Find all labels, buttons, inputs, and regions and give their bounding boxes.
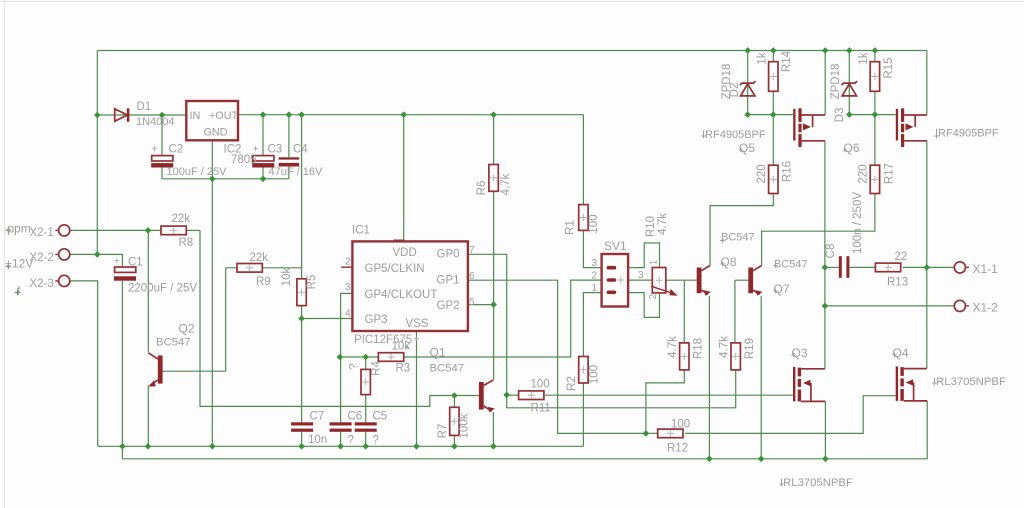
svg-text:GND: GND: [204, 127, 228, 139]
wire D2 node to Q5 gate: [748, 114, 794, 116]
wire SV1 pin1 to R2: [583, 293, 601, 357]
svg-text:R8: R8: [179, 237, 194, 249]
svg-text:Q5: Q5: [739, 141, 755, 155]
diode D1: [115, 108, 130, 121]
wire R11 left lead: [507, 394, 519, 396]
wire ppm net to Q1 base: [200, 230, 479, 406]
svg-text:SV1: SV1: [604, 239, 627, 253]
svg-text:C2: C2: [169, 144, 184, 156]
wire trimmer to Q8 base: [667, 279, 697, 281]
junction D2 cathode node: [744, 111, 751, 118]
svg-text:X2-3: X2-3: [30, 278, 54, 290]
svg-text:220: 220: [756, 164, 768, 183]
junction rail1 VSS: [413, 443, 420, 450]
svg-text:Q4: Q4: [893, 346, 909, 360]
svg-text:Q3: Q3: [792, 346, 808, 360]
wire 5V to R9/R5 column: [301, 115, 303, 279]
frame border left: [4, 0, 6, 508]
junction R13 right: [924, 264, 931, 271]
junction C4 top: [286, 111, 293, 118]
wire R6 to GP2 to Q1 collector: [493, 191, 495, 379]
wire R3 right to SV1 pin2: [404, 280, 602, 357]
wire Q3 source column: [824, 401, 826, 458]
wire X2-3 to ground rail: [70, 281, 98, 446]
svg-text:BC547: BC547: [774, 259, 808, 271]
junction X1-2 node: [822, 303, 829, 310]
capacitor C4: [279, 157, 300, 166]
junction R7 top: [451, 392, 458, 399]
resistor R8: [161, 226, 186, 235]
wire R7 leads: [453, 396, 455, 447]
junction X2-1 R8: [145, 227, 152, 234]
mosfet Q6: [896, 108, 927, 147]
svg-text:2: 2: [345, 257, 351, 268]
wire GP3 row: [302, 318, 353, 320]
wire SV1 pin1 to trimmer bottom: [628, 293, 660, 318]
net flag ppm cross: [6, 227, 12, 233]
svg-text:100: 100: [531, 379, 550, 391]
junction IC2 GND: [209, 176, 216, 183]
svg-text:R17: R17: [884, 163, 896, 184]
junction C2 top: [159, 112, 166, 119]
svg-text:Q7: Q7: [774, 282, 790, 296]
junction C3 top: [260, 111, 267, 118]
svg-text:Q1: Q1: [430, 346, 446, 360]
svg-text:IRL3705NPBF: IRL3705NPBF: [780, 477, 853, 489]
junction rail D3: [846, 47, 853, 54]
svg-text:C1: C1: [128, 257, 143, 269]
svg-text:C3: C3: [268, 144, 283, 156]
frame border top: [0, 1, 1024, 3]
svg-text:GP1: GP1: [437, 275, 460, 287]
capacitor C3: [252, 156, 274, 168]
capacitor C6: [330, 422, 352, 432]
svg-text:1k: 1k: [858, 52, 870, 64]
svg-text:100: 100: [671, 419, 690, 431]
wire C6 column: [340, 357, 342, 446]
wire C8 to R13: [849, 266, 875, 268]
wire R1 bottom to SV1 pin3: [583, 230, 601, 267]
wire C3 leads: [262, 115, 264, 179]
junction rail1 C7: [298, 443, 305, 450]
junction R12 left node: [643, 430, 650, 437]
wire GP1 to R12: [468, 280, 658, 433]
wire R15 R17 column: [874, 51, 876, 166]
resistor R5: [297, 279, 306, 306]
svg-text:GP2: GP2: [437, 300, 460, 312]
svg-text:6: 6: [469, 271, 475, 282]
junction R14 bottom: [770, 111, 777, 118]
junction rail2 Q7 emitter: [758, 456, 765, 463]
wire R12 to Q4 gate: [685, 396, 896, 434]
wire X1-2 row: [825, 305, 955, 307]
wire GP0 to R11 to R19 bottom: [468, 254, 736, 407]
svg-text:D1: D1: [137, 101, 152, 113]
svg-text:f: f: [17, 284, 21, 298]
svg-text:VDD: VDD: [393, 247, 417, 259]
svg-text:100: 100: [589, 365, 601, 384]
text origin crosses: [405, 134, 939, 486]
svg-text:10n: 10n: [308, 434, 327, 446]
svg-text:100: 100: [588, 214, 600, 233]
resistor R12: [658, 429, 683, 438]
svg-text:3: 3: [592, 258, 598, 269]
svg-text:+OUT: +OUT: [209, 110, 239, 122]
junction R6 top: [490, 111, 497, 118]
svg-text:Q2: Q2: [179, 322, 195, 336]
IC1 PIC12F675 box: [352, 241, 468, 331]
wire C8 left lead: [825, 266, 839, 268]
svg-text:IC1: IC1: [352, 225, 370, 237]
svg-text:?: ?: [348, 435, 354, 447]
resistor R7: [450, 407, 459, 435]
svg-text:GP0: GP0: [437, 249, 460, 261]
connector X2-2: [55, 249, 69, 260]
svg-text:2200uF / 25V: 2200uF / 25V: [128, 283, 197, 295]
junction GP2 node: [490, 301, 497, 308]
junction C3 bottom: [260, 176, 267, 183]
svg-text:R16: R16: [782, 161, 794, 182]
junction R5 bottom: [298, 315, 305, 322]
capacitor C1: [114, 267, 136, 281]
svg-text:2: 2: [592, 270, 598, 281]
wire D2 zener leads: [747, 51, 749, 115]
voltage regulator IC2: [186, 101, 238, 140]
wire R1 top column: [582, 115, 584, 205]
wire Q2 collector column: [147, 230, 149, 351]
resistor R4: [361, 369, 370, 394]
svg-text:4.7k: 4.7k: [667, 336, 679, 358]
junction R11 left: [503, 392, 510, 399]
svg-text:10k: 10k: [281, 267, 293, 286]
svg-text:+: +: [114, 257, 120, 268]
svg-text:22: 22: [895, 251, 908, 263]
junction VDD: [400, 111, 407, 118]
svg-text:C6: C6: [348, 411, 363, 423]
wire R8 right lead: [186, 229, 200, 231]
resistor R2: [579, 357, 588, 384]
wire rail1 to rail2 drop: [121, 446, 123, 459]
junction rail1 Q2 emitter: [145, 443, 152, 450]
svg-text:X2-2: X2-2: [30, 252, 54, 264]
svg-text:IRF4905BPF: IRF4905BPF: [935, 128, 999, 140]
wire Q2 emitter column: [147, 385, 149, 446]
wire IC2 OUT 5V row: [238, 114, 583, 116]
svg-text:ppm: ppm: [8, 222, 31, 236]
svg-text:R7: R7: [437, 424, 449, 439]
resistor R1: [579, 205, 588, 231]
resistor R15: [870, 62, 879, 92]
wire VDD column: [403, 115, 405, 242]
resistor R11: [519, 391, 544, 400]
zener diode D3: [842, 81, 858, 96]
svg-text:X2-1: X2-1: [30, 227, 54, 239]
wire R11 to Q3 gate: [545, 394, 793, 396]
junction GP4 C6 node: [337, 354, 344, 361]
mosfet Q5: [793, 108, 825, 147]
svg-text:GP3: GP3: [365, 314, 388, 326]
svg-text:100uF / 25V: 100uF / 25V: [167, 166, 228, 178]
resistor R19: [731, 343, 740, 370]
wire R18 bottom to R12 node: [646, 370, 684, 434]
junction rail1 C1: [119, 443, 126, 450]
junction R9 column top: [298, 111, 305, 118]
svg-text:R3: R3: [396, 363, 411, 375]
junction rail1 Q1 emitter: [490, 443, 497, 450]
svg-text:Q6: Q6: [844, 141, 860, 155]
wire R9 left to Q2 base column: [225, 268, 227, 371]
svg-text:R2: R2: [566, 376, 578, 391]
svg-text:?: ?: [373, 435, 379, 447]
wire R4 leads: [365, 357, 367, 422]
wire C1 bottom lead: [121, 281, 123, 447]
svg-text:1k: 1k: [757, 52, 769, 64]
svg-text:C4: C4: [293, 144, 308, 156]
zener diode D2: [740, 81, 756, 96]
svg-text:+: +: [152, 144, 158, 155]
resistor R16: [769, 165, 778, 193]
svg-text:47uF / 16V: 47uF / 16V: [269, 166, 323, 178]
connector X1-1: [954, 262, 969, 273]
resistor R17: [870, 165, 879, 193]
wire IC2 GND column: [211, 140, 213, 446]
wire Q7 emitter column: [760, 296, 762, 459]
junction rail1 C5: [362, 443, 369, 450]
wire ground rail 1: [98, 445, 584, 447]
svg-text:Q8: Q8: [721, 255, 737, 269]
svg-text:IN: IN: [190, 110, 201, 122]
junction D1 anode: [94, 112, 101, 119]
svg-text:3: 3: [638, 270, 644, 281]
transistor Q8: [697, 266, 711, 297]
svg-text:R5: R5: [306, 275, 318, 290]
wire +12V top rail: [97, 50, 927, 52]
wire R9 row: [226, 267, 302, 269]
wire Q2 base: [162, 370, 226, 372]
transistor Q2: [148, 353, 162, 387]
svg-text:1N4004: 1N4004: [136, 116, 175, 128]
transistor Q1: [479, 380, 495, 413]
capacitor C8: [839, 256, 850, 278]
svg-text:4.7k: 4.7k: [500, 173, 512, 195]
wire D3 node to Q6 gate: [849, 114, 896, 116]
wire Q8 emitter column: [708, 296, 710, 459]
svg-text:7: 7: [469, 245, 475, 256]
connector X2-1: [55, 225, 69, 236]
net flag +12V cross: [6, 263, 12, 269]
svg-text:R4: R4: [371, 361, 383, 376]
connector X2-3: [55, 275, 69, 286]
svg-text:1: 1: [649, 259, 660, 265]
IC1 VDD overbar: [394, 239, 405, 241]
svg-text:X1-1: X1-1: [973, 262, 999, 276]
wire Q1 emitter column: [492, 412, 494, 446]
svg-text:R14: R14: [781, 50, 793, 72]
wire VSS column: [416, 331, 418, 446]
wire left +12V column: [96, 51, 98, 255]
wire Q6 source to Q4 drain: [926, 141, 928, 369]
wire R18 top column: [683, 280, 685, 343]
svg-text:R10: R10: [645, 216, 657, 237]
resistor R14: [769, 62, 778, 92]
svg-text:ZPD18: ZPD18: [830, 64, 842, 100]
wire R16 bottom to Q8 collector: [710, 194, 773, 266]
wire GP2 pin 5: [468, 304, 494, 306]
svg-text:2: 2: [648, 293, 659, 299]
resistor R13: [875, 263, 900, 272]
wire SV1 pin3 to trimmer top: [628, 243, 660, 268]
svg-text:4.7k: 4.7k: [719, 336, 731, 358]
svg-text:R18: R18: [693, 338, 705, 359]
wire X2-1 to R8: [70, 229, 161, 231]
svg-text:C7: C7: [310, 411, 325, 423]
svg-text:GP4/CLKOUT: GP4/CLKOUT: [365, 289, 438, 301]
svg-text:5: 5: [469, 297, 475, 308]
wire D3 zener leads: [848, 51, 850, 115]
svg-text:GP5/CLKIN: GP5/CLKIN: [365, 263, 425, 275]
svg-text:R6: R6: [476, 181, 488, 196]
svg-text:3: 3: [345, 282, 351, 293]
wire R5 bottom column to C7: [301, 306, 303, 447]
junction R15 bottom: [872, 111, 879, 118]
svg-text:R19: R19: [744, 338, 756, 359]
svg-text:R9: R9: [256, 276, 271, 288]
svg-text:R11: R11: [531, 403, 551, 415]
svg-text:1: 1: [592, 283, 598, 294]
svg-text:BC547: BC547: [156, 337, 191, 349]
svg-text:IRF4905BPF: IRF4905BPF: [702, 129, 766, 141]
junction rail R14: [770, 47, 777, 54]
svg-text:IRL3705NPBF: IRL3705NPBF: [933, 376, 1006, 388]
net flag f cross: [15, 290, 21, 296]
resistor R6: [489, 165, 498, 192]
svg-text:R12: R12: [667, 443, 688, 455]
svg-text:R15: R15: [883, 57, 895, 78]
svg-text:BC547: BC547: [721, 232, 755, 244]
wire R14 R16 column: [772, 51, 774, 166]
junction C8 left: [822, 264, 829, 271]
svg-text:R13: R13: [887, 277, 908, 289]
svg-text:220: 220: [858, 164, 870, 183]
wire R2 bottom lead: [582, 383, 584, 446]
wire ground rail 2: [122, 401, 927, 459]
wire Q5 drain column: [824, 51, 826, 116]
svg-text:C8: C8: [825, 244, 837, 259]
svg-text:+: +: [253, 144, 259, 155]
wire C4 leads: [288, 115, 290, 179]
svg-text:D3: D3: [834, 108, 846, 123]
wire C2 leads: [161, 115, 163, 179]
junction R4 top: [362, 354, 369, 361]
capacitor C7: [291, 422, 313, 432]
junction X2-2: [94, 251, 101, 258]
svg-text:100n / 250V: 100n / 250V: [852, 192, 864, 254]
junction rail2 Q8 emitter: [706, 456, 713, 463]
svg-text:22k: 22k: [250, 252, 269, 264]
svg-text:C5: C5: [373, 411, 388, 423]
resistor R3: [378, 353, 403, 362]
junction rail Q5: [822, 47, 829, 54]
transistor Q7: [748, 266, 762, 297]
wire R17 bottom to Q7 collector: [762, 194, 875, 266]
svg-text:X1-2: X1-2: [973, 301, 999, 315]
wire capacitor ground row: [162, 178, 289, 180]
svg-text:22k: 22k: [172, 213, 191, 225]
wire rail to Q6 drain: [926, 51, 928, 116]
wire Q7 base column to R19: [735, 280, 748, 343]
wire R3 left row: [340, 356, 379, 358]
junction rail1 R7: [451, 443, 458, 450]
wire R6 column top: [493, 115, 495, 165]
junction rail R15: [872, 47, 879, 54]
connector X1-2: [954, 300, 969, 311]
svg-text:4: 4: [345, 309, 351, 320]
svg-text:VSS: VSS: [406, 318, 429, 330]
svg-text:BC547: BC547: [430, 363, 465, 375]
junction rail1 GND column: [209, 443, 216, 450]
IC1 pin2 tick: [341, 266, 352, 268]
wire Q5 source to C8 to Q3 drain: [824, 141, 826, 369]
wire X2-2 to C1: [70, 254, 123, 267]
svg-text:D2: D2: [729, 83, 741, 98]
wire D1 row to IC2 IN: [97, 114, 186, 116]
wire C5 bottom lead: [365, 432, 367, 447]
wire GP4 pin3 column: [341, 293, 353, 357]
junction rail D2: [744, 47, 751, 54]
resistor R9: [237, 264, 262, 273]
mosfet Q3: [793, 367, 825, 402]
svg-text:R1: R1: [565, 220, 577, 235]
junction rail1 C6: [337, 443, 344, 450]
junction D3 cathode node: [846, 111, 853, 118]
capacitor C2: [151, 156, 173, 168]
junction rail2 Q3 source: [822, 456, 829, 463]
trimmer R10: [651, 268, 678, 296]
svg-text:7805: 7805: [231, 154, 257, 166]
connector SV1: [602, 254, 629, 307]
capacitor C5: [355, 422, 377, 432]
svg-text:?: ?: [349, 363, 361, 369]
svg-text:100k: 100k: [459, 413, 471, 438]
mosfet Q4: [896, 366, 928, 401]
resistor R18: [680, 343, 689, 370]
wire R13 to X1-1: [903, 266, 955, 268]
svg-text:10k: 10k: [392, 341, 411, 353]
svg-text:4.7k: 4.7k: [657, 213, 669, 235]
wire SV1 pin2 to trimmer wiper: [628, 279, 652, 281]
